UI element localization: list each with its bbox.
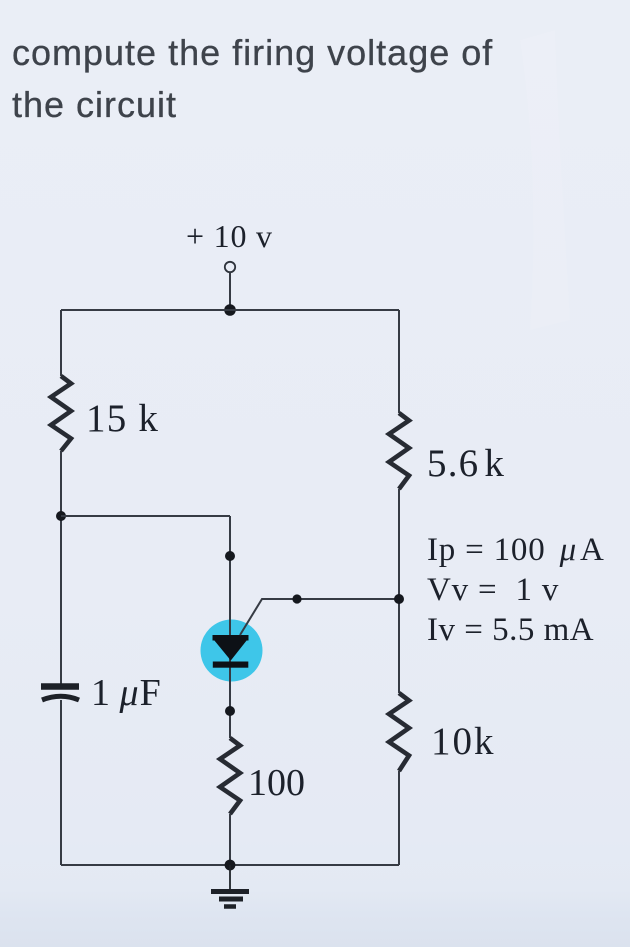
capacitor C1 1 uF bbox=[41, 683, 79, 690]
svg-text:Iv = 5.5 mA: Iv = 5.5 mA bbox=[427, 612, 594, 648]
svg-text:5.6k: 5.6k bbox=[427, 442, 505, 485]
watermark bbox=[520, 30, 570, 330]
supply terminal bbox=[225, 262, 235, 272]
svg-text:10k: 10k bbox=[431, 720, 496, 763]
node left junction bbox=[56, 511, 66, 521]
wire left rail lower bbox=[60, 700, 62, 865]
wire left rail middle bbox=[60, 451, 62, 686]
node anode dot bbox=[225, 551, 235, 561]
wire cathode column lower bbox=[229, 814, 231, 865]
node top junction bbox=[224, 304, 236, 316]
svg-text:15 k: 15 k bbox=[86, 397, 159, 440]
resistor R4 10k bbox=[389, 693, 409, 771]
node right junction bbox=[394, 594, 404, 604]
node gate dot bbox=[292, 594, 301, 603]
wire device column bbox=[229, 516, 231, 738]
ground bbox=[211, 865, 249, 907]
wire right rail lower bbox=[398, 771, 400, 865]
svg-text:Vv = 1 v: Vv = 1 v bbox=[427, 572, 559, 608]
diode highlight circle bbox=[201, 620, 263, 682]
wire left rail upper bbox=[60, 310, 62, 376]
wire top rail bbox=[61, 309, 399, 311]
wire node to device column bbox=[61, 515, 230, 517]
svg-text:+ 10 v: + 10 v bbox=[186, 218, 273, 254]
resistor R2 100 bbox=[220, 738, 240, 814]
svg-text:Ip = 100 μA: Ip = 100 μA bbox=[427, 532, 605, 568]
node ground junction bbox=[225, 860, 236, 871]
wire supply to top rail bbox=[229, 273, 231, 311]
resistor R1 15 k bbox=[51, 376, 71, 451]
wire gate lead bbox=[240, 599, 399, 635]
diode D1 symbol bbox=[213, 635, 249, 668]
wire right rail middle bbox=[398, 489, 400, 693]
svg-text:100: 100 bbox=[248, 762, 305, 804]
node cathode dot bbox=[225, 706, 235, 716]
wire bottom rail bbox=[61, 864, 399, 866]
resistor R3 5.6k bbox=[389, 413, 409, 489]
wire right rail upper bbox=[398, 310, 400, 413]
svg-text:1 μF: 1 μF bbox=[91, 672, 161, 714]
